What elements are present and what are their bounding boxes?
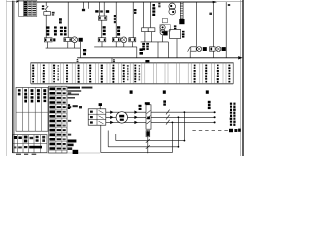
border bottom xyxy=(12,152,100,154)
cable spec vertical text xyxy=(230,103,232,105)
drop to bus A xyxy=(79,48,81,58)
fuse FU1 xyxy=(44,12,51,16)
label 2DK xyxy=(59,18,62,21)
fuse branch xyxy=(147,130,149,153)
collector wire F xyxy=(141,41,169,43)
top bus wire xyxy=(37,1,213,3)
vertical link 2 xyxy=(177,117,179,147)
label marks xyxy=(174,25,177,27)
knife switch slashes xyxy=(166,110,170,115)
bus stub chain1 xyxy=(189,51,191,58)
mark right of 1QF xyxy=(53,38,55,41)
label FU1 xyxy=(52,12,55,14)
wire stub xyxy=(47,42,49,48)
meter chain 2 xyxy=(210,47,216,51)
control box grid xyxy=(88,109,106,125)
left table columns xyxy=(21,88,23,132)
label 1ZKK xyxy=(54,26,57,28)
meter chain 1 xyxy=(188,47,191,52)
wire long 3 xyxy=(225,2,227,58)
wire list rows xyxy=(49,90,67,92)
note line 4 xyxy=(68,97,75,99)
label QS1 xyxy=(42,5,44,7)
strip number label 2 xyxy=(113,59,115,61)
label 1DK xyxy=(47,26,50,28)
label 3ZKK xyxy=(103,26,106,28)
loop wire 1 xyxy=(115,134,117,141)
label 32TRA xyxy=(139,105,142,107)
breaker 3QF box xyxy=(98,38,106,42)
CT circles xyxy=(160,25,165,30)
label at drop A xyxy=(83,49,86,52)
corner tick xyxy=(16,1,19,4)
collector wire A xyxy=(46,47,81,49)
three phase lines left xyxy=(106,111,146,113)
terminal strip dividers xyxy=(36,63,38,84)
fuse cap above box xyxy=(99,105,101,109)
left table outline xyxy=(16,88,48,132)
border top xyxy=(7,0,244,2)
chevrons right xyxy=(134,111,137,114)
fuse 3FU xyxy=(98,16,106,20)
label 2ZKK xyxy=(60,27,63,29)
aux box E xyxy=(129,38,136,42)
note line 2 xyxy=(68,90,82,92)
breaker 1QF box xyxy=(44,38,52,42)
bus stub chain2 xyxy=(212,51,214,58)
drop to bus F2 xyxy=(167,42,169,58)
wire drop E xyxy=(132,2,134,38)
wire list table outline xyxy=(49,86,67,153)
small aux box xyxy=(162,18,167,22)
wire xyxy=(101,20,103,38)
breaker column box xyxy=(146,105,151,129)
label right xyxy=(208,101,211,104)
paper edge line xyxy=(6,0,8,156)
loop wire 3 xyxy=(100,125,102,152)
bottom-left table columns xyxy=(17,135,19,153)
wire feeder3 drop b xyxy=(103,2,105,16)
chevrons left xyxy=(110,111,113,114)
relay box H xyxy=(170,29,181,38)
bus stub to strip xyxy=(111,58,113,63)
title block table top-left xyxy=(19,1,37,17)
collector wire B xyxy=(94,46,137,48)
wire stub x88 xyxy=(88,2,90,9)
bottom margin marks xyxy=(16,154,21,155)
drop to bus B xyxy=(136,47,138,58)
title block text rows xyxy=(24,1,27,3)
label 1DZ xyxy=(163,100,166,102)
label at drop B xyxy=(140,48,143,51)
bottom-left table outline xyxy=(13,135,47,153)
wire feeder1 drop xyxy=(45,2,47,6)
wire3 label xyxy=(228,4,230,6)
label right of H xyxy=(182,31,185,33)
wire xyxy=(45,15,47,38)
wire label c xyxy=(206,90,209,93)
note label 1a xyxy=(68,104,70,106)
label below F xyxy=(142,43,145,45)
wire long 2 xyxy=(212,2,214,47)
wire2 label xyxy=(209,13,212,15)
CT frame xyxy=(160,25,170,31)
bottom-left table texts xyxy=(18,136,21,139)
label 18 xyxy=(134,9,137,11)
terminal strip outline xyxy=(31,63,233,84)
wire xyxy=(45,10,47,12)
drop to bus F1 xyxy=(157,42,159,58)
dashed line end symbols xyxy=(229,129,233,132)
vertical link 3 xyxy=(171,122,173,152)
end dots xyxy=(214,111,216,113)
wire label a xyxy=(130,90,133,93)
label A3 xyxy=(95,10,98,12)
revision dot xyxy=(14,136,17,139)
lamp HL1 circle-x xyxy=(72,37,78,43)
wire stub xyxy=(101,42,103,47)
resistor R1 vertical xyxy=(179,2,181,19)
mark on strip xyxy=(145,60,149,62)
wire stubs xyxy=(144,32,146,42)
bottom dense block xyxy=(68,140,77,143)
stamp xyxy=(73,150,79,154)
fuse box pair xyxy=(142,28,149,32)
label marks xyxy=(114,15,117,17)
dashed control line xyxy=(192,130,195,132)
wire list text xyxy=(49,87,55,90)
label 74 14U xyxy=(153,4,156,6)
meter blob xyxy=(79,38,83,42)
breaker 2QF box xyxy=(64,38,72,42)
resistor body black xyxy=(179,19,184,24)
strip number label 1 xyxy=(77,59,79,60)
motor M circle xyxy=(116,112,127,123)
label 4ZKK xyxy=(117,26,120,29)
vertical link 1 xyxy=(183,112,185,140)
loop wire 2 xyxy=(107,131,109,147)
left table header text xyxy=(18,89,21,91)
lamp HL2 circle-x xyxy=(121,37,127,43)
wire stub x83 xyxy=(82,2,84,9)
CT blob below xyxy=(163,31,167,35)
main bus horizontal xyxy=(77,57,238,59)
drop to bus H xyxy=(176,39,178,58)
PT circles top xyxy=(169,3,176,10)
breaker 4QF box xyxy=(112,38,120,42)
switch QS1 xyxy=(45,6,48,10)
wire label b xyxy=(163,90,166,93)
wire feeder3 drop a xyxy=(99,2,101,16)
border right double line xyxy=(240,0,242,156)
wire drop F1 xyxy=(143,2,145,27)
note line 3 xyxy=(68,94,79,96)
wire feeder4 drop xyxy=(115,2,117,38)
terminal strip labels xyxy=(32,65,34,67)
label A xyxy=(147,117,150,120)
label D1 xyxy=(79,106,82,108)
wire long 1 xyxy=(195,2,197,47)
note line 1 xyxy=(68,87,80,89)
three phase lines right xyxy=(151,111,215,113)
label small xyxy=(158,3,160,5)
left table inner hline xyxy=(16,111,48,113)
border left double line xyxy=(11,1,13,153)
top bus arrow xyxy=(213,1,217,3)
bus arrow xyxy=(238,56,242,59)
wire feeder2 drop xyxy=(67,2,69,38)
wire drop F2 xyxy=(149,2,151,27)
